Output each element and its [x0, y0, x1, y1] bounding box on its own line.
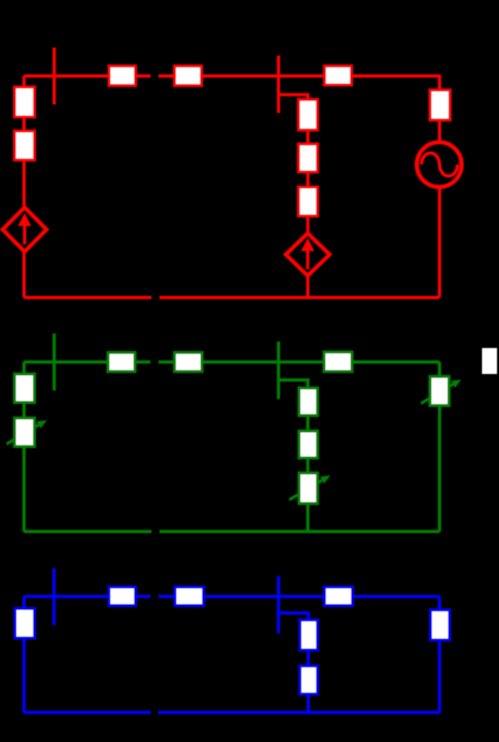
resistor R6 — [299, 144, 318, 172]
wire bottom-right segment — [160, 296, 440, 299]
arrow of variable resistor R18 — [421, 380, 461, 404]
wire left vertical — [22, 597, 25, 713]
resistor R13 — [175, 353, 203, 372]
wire right vertical — [438, 597, 441, 713]
wire top-right segment — [159, 595, 440, 598]
resistor R22 — [300, 620, 318, 650]
resistor R2 — [15, 131, 35, 160]
wire top-left segment — [24, 74, 151, 77]
wire bottom-right segment — [160, 530, 440, 533]
wire left below diamond — [22, 253, 25, 298]
resistor R8 — [325, 66, 352, 85]
current source I2 — [286, 233, 330, 275]
resistor R23 — [300, 666, 318, 694]
resistor R9 — [430, 90, 450, 120]
node N4 marker — [277, 342, 280, 400]
node N3 marker — [53, 334, 56, 391]
wire top-right segment — [159, 360, 440, 363]
wire right vertical upper — [438, 90, 441, 143]
node N2 marker — [277, 56, 280, 114]
wire chain vertical — [306, 388, 309, 532]
wire branch to chain — [279, 380, 308, 388]
resistor R5 — [299, 100, 318, 131]
current source I1 — [3, 207, 47, 251]
wire right vertical — [438, 362, 441, 532]
AC source V1 — [417, 142, 462, 187]
variable resistor R16 — [299, 473, 318, 504]
wire branch to chain — [279, 95, 308, 100]
resistor R10 — [15, 374, 35, 403]
resistor R12 — [108, 353, 135, 372]
wire top-left segment — [24, 360, 151, 363]
variable resistor R11 — [15, 418, 35, 447]
resistor R25 — [431, 610, 450, 640]
resistor R4 — [175, 66, 202, 86]
wire top-left segment — [24, 595, 151, 598]
wire chain vertical — [306, 99, 309, 232]
wire top-right segment — [159, 76, 440, 90]
resistor R1 — [15, 87, 35, 117]
node N1 marker — [53, 48, 56, 105]
resistor R15 — [299, 431, 318, 458]
wire chain below diamond — [306, 277, 309, 298]
resistor R17 — [324, 352, 352, 372]
wire bottom-left segment — [24, 711, 151, 714]
node N6 marker — [277, 576, 280, 634]
legend swatch — [482, 348, 497, 374]
wire left vertical — [22, 76, 25, 206]
wire branch to chain — [279, 613, 309, 620]
node N5 marker — [52, 568, 55, 625]
variable resistor R18 — [430, 377, 449, 406]
resistor R3 — [109, 66, 136, 86]
wire bottom-left segment — [24, 296, 152, 299]
wire bottom-right segment — [158, 711, 440, 714]
wire right vertical lower — [438, 186, 441, 298]
resistor R20 — [109, 587, 136, 606]
resistor R14 — [299, 388, 318, 416]
resistor R24 — [325, 587, 353, 606]
resistor R21 — [175, 587, 204, 606]
resistor R19 — [15, 609, 35, 639]
resistor R7 — [299, 187, 318, 216]
wire left vertical — [22, 362, 25, 532]
wire chain vertical — [307, 620, 310, 713]
arrow of variable resistor R16 — [289, 475, 330, 500]
arrow of variable resistor R11 — [7, 420, 47, 444]
wire bottom-left segment — [24, 530, 152, 533]
